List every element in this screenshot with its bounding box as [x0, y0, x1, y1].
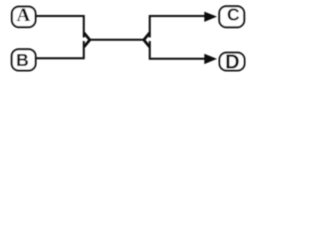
wire A to merge corner	[36, 16, 84, 38]
svg-text:D: D	[225, 52, 239, 74]
svg-text:C: C	[227, 5, 240, 25]
wire split to C	[150, 16, 206, 38]
arrowhead to C	[204, 12, 217, 22]
node A	[12, 7, 36, 28]
middle wire	[89, 39, 145, 41]
wire B to merge corner	[36, 41, 84, 58]
svg-text:B: B	[16, 50, 29, 70]
merge chevron	[84, 33, 90, 47]
node C	[219, 6, 244, 27]
node D	[220, 53, 245, 71]
svg-text:A: A	[17, 5, 31, 26]
wire split to D	[150, 41, 206, 59]
node B	[12, 49, 36, 70]
split chevron	[144, 33, 150, 47]
arrowhead to D	[204, 54, 217, 64]
